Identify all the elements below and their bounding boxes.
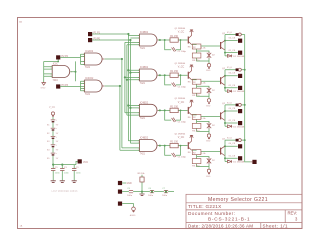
svg-text:Sheet: 1/1: Sheet: 1/1: [263, 223, 289, 228]
svg-text:7421: 7421: [140, 48, 146, 50]
svg-text:IC4CD2: IC4CD2: [85, 78, 94, 80]
svg-text:100n: 100n: [162, 195, 168, 197]
svg-text:Document Number:: Document Number:: [188, 211, 235, 216]
svg-text:V_CC: V_CC: [49, 107, 55, 109]
svg-text:7421: 7421: [85, 94, 91, 96]
svg-text:AGND: AGND: [130, 214, 136, 217]
svg-text:100n: 100n: [148, 195, 154, 197]
svg-text:7421: 7421: [140, 118, 146, 120]
svg-text:100n: 100n: [127, 195, 133, 197]
svg-text:IC4BD2: IC4BD2: [140, 103, 149, 105]
svg-text:IC4BD2: IC4BD2: [140, 67, 149, 69]
svg-text:IC3C: IC3C: [53, 64, 59, 66]
svg-text:IC4BD2: IC4BD2: [140, 138, 149, 140]
svg-text:R9 10k: R9 10k: [138, 173, 146, 175]
svg-text:7404: 7404: [53, 80, 59, 82]
svg-text:TITLE: G221X: TITLE: G221X: [188, 204, 222, 209]
svg-text:7421: 7421: [140, 153, 146, 155]
svg-text:REV:: REV:: [288, 210, 298, 215]
svg-text:IC4AD2: IC4AD2: [85, 50, 94, 53]
svg-text:Memory Selector G221: Memory Selector G221: [208, 197, 268, 203]
svg-text:VCC: VCC: [83, 161, 88, 164]
svg-text:GND: GND: [41, 87, 46, 89]
svg-text:7421: 7421: [85, 67, 91, 69]
svg-text:GND: GND: [127, 183, 132, 185]
svg-text:LAST MODIFIED 2/28/16: LAST MODIFIED 2/28/16: [52, 190, 79, 193]
svg-text:IC4BD2: IC4BD2: [140, 32, 149, 34]
svg-text:7421: 7421: [140, 83, 146, 85]
svg-text:Date: 2/28/2016 10:26:36 AM: Date: 2/28/2016 10:26:36 AM: [188, 223, 253, 228]
svg-text:B-CS-3221-B-1: B-CS-3221-B-1: [208, 217, 250, 222]
